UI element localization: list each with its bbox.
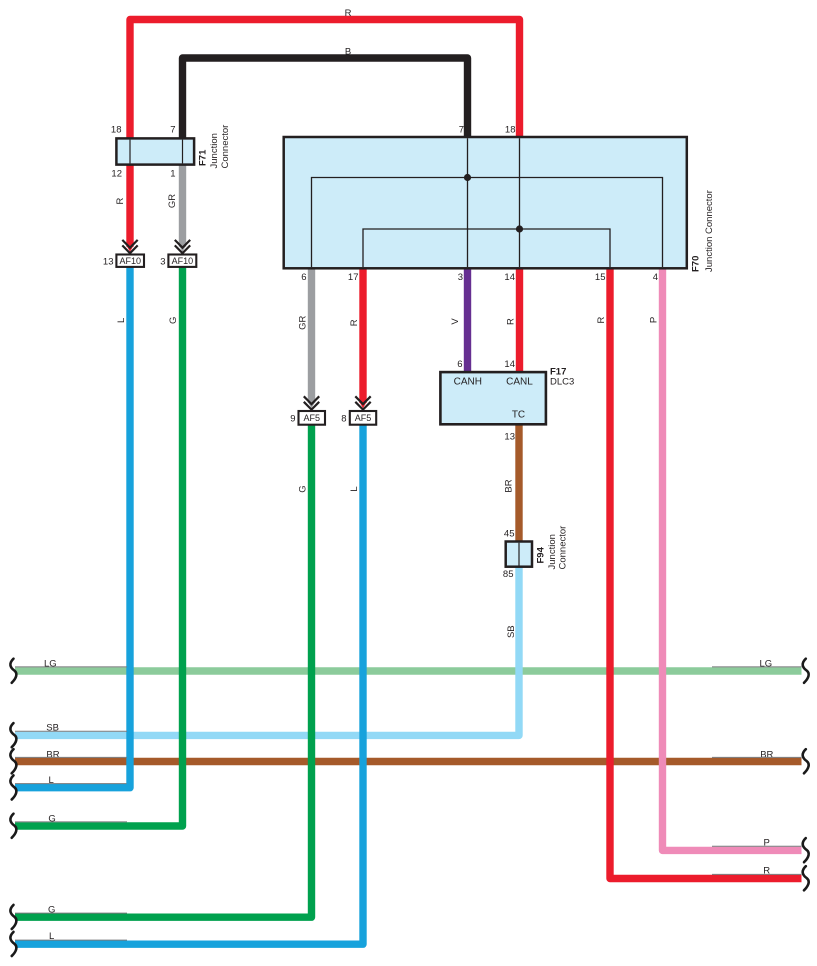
svg-text:Junction: Junction: [547, 534, 558, 569]
designator F71 Junction Connector: [198, 125, 232, 169]
svg-text:GR: GR: [167, 194, 178, 208]
designator F94 Junction Connector: [536, 526, 569, 570]
wire BR horizontal bus: [15, 758, 802, 765]
svg-text:14: 14: [504, 359, 515, 370]
svg-text:F70: F70: [691, 256, 702, 272]
svg-text:1: 1: [170, 169, 175, 180]
connector box AF10 (pin 3): [168, 255, 196, 267]
junction dot F70 pins 7-3/6-4 bus: [464, 174, 471, 181]
underline LG right: [712, 666, 802, 668]
svg-text:L: L: [349, 486, 360, 491]
svg-text:12: 12: [111, 169, 122, 180]
wire L from AF10 pin 13 down and left: [15, 266, 130, 788]
connector box AF5 (pin 8): [350, 411, 376, 425]
wire P from F70 pin 4 down and right: [663, 267, 802, 850]
svg-text:Connector: Connector: [220, 125, 231, 169]
junction connector F70: [284, 137, 687, 268]
connector box AF5 (pin 9): [299, 411, 326, 425]
arrow into AF5 pin 8: [355, 396, 370, 412]
svg-text:GR: GR: [298, 316, 309, 330]
underline BR right: [712, 756, 802, 758]
break symbol L2 left: [10, 932, 16, 956]
wire LG horizontal bus: [15, 667, 802, 674]
svg-text:LG: LG: [759, 658, 772, 669]
svg-text:6: 6: [457, 359, 462, 370]
svg-text:7: 7: [459, 125, 464, 136]
break symbol L left: [10, 775, 16, 799]
svg-text:R: R: [596, 316, 607, 323]
underline G2 left: [15, 912, 127, 914]
wire R from F70 pin 17 to AF5 pin 8: [359, 267, 366, 403]
wire BR from F17 TC pin 13 to F94 pin 45: [515, 424, 522, 544]
arrow into AF5 pin 9: [304, 396, 319, 412]
svg-text:13: 13: [504, 431, 515, 442]
designator F70 Junction Connector: [691, 190, 716, 272]
svg-text:CANL: CANL: [506, 377, 533, 388]
svg-text:AF10: AF10: [172, 256, 194, 266]
svg-text:SB: SB: [46, 723, 59, 734]
wire GR from F71 pin 1 to AF10 pin 3: [179, 163, 186, 247]
connector box AF10 (pin 13): [116, 255, 144, 267]
svg-text:AF5: AF5: [303, 413, 320, 423]
junction dot F70 pins 18-14/17-15 bus: [516, 225, 523, 232]
svg-text:8: 8: [341, 414, 346, 425]
wire GR from F70 pin 6 to AF5 pin 9: [308, 267, 315, 403]
designator F17 DLC3: [550, 367, 574, 388]
wire G from AF10 pin 3 down and left: [15, 266, 183, 827]
underline P right: [712, 845, 802, 847]
wire V from F70 pin 3 to F17 CANH: [464, 267, 471, 373]
svg-text:G: G: [48, 813, 55, 824]
break symbol SB left: [10, 723, 16, 747]
svg-text:LG: LG: [44, 658, 57, 669]
svg-text:BR: BR: [760, 749, 773, 760]
svg-text:P: P: [649, 317, 660, 323]
svg-text:AF5: AF5: [355, 413, 372, 423]
break symbol R right: [803, 866, 809, 890]
svg-text:45: 45: [504, 529, 515, 540]
wire R from F70 pin 15 down and right: [610, 267, 802, 879]
svg-text:6: 6: [301, 272, 306, 283]
svg-text:Junction Connector: Junction Connector: [704, 190, 715, 272]
svg-text:3: 3: [458, 272, 463, 283]
underline BR left: [15, 756, 127, 758]
svg-text:F94: F94: [536, 546, 547, 563]
underline G left: [15, 821, 127, 823]
svg-text:P: P: [764, 838, 770, 849]
svg-text:TC: TC: [512, 410, 525, 421]
wire L from AF5 pin 8 down and left: [15, 424, 363, 945]
break symbol LG left: [10, 659, 16, 683]
svg-text:G: G: [168, 317, 179, 324]
svg-text:15: 15: [595, 272, 606, 283]
break symbol P right: [803, 838, 809, 862]
svg-text:AF10: AF10: [119, 256, 141, 266]
DLC3 connector F17: [440, 372, 546, 424]
arrow into AF10 pin 3: [175, 240, 190, 256]
svg-text:4: 4: [653, 272, 658, 283]
junction connector F71: [116, 138, 194, 164]
wire R main: F71 pin 18 up over to F70 pin 18, through to F17 CANL: [130, 20, 520, 374]
svg-text:R: R: [506, 318, 517, 325]
svg-text:B: B: [345, 47, 351, 58]
underline SB left: [15, 730, 127, 732]
underline R right: [712, 873, 802, 875]
svg-text:85: 85: [503, 569, 514, 580]
break symbol LG right: [803, 659, 809, 683]
break symbol G left: [10, 814, 16, 838]
arrow into AF10 pin 13: [122, 240, 137, 256]
svg-text:V: V: [450, 318, 461, 325]
svg-text:R: R: [345, 8, 352, 19]
svg-text:SB: SB: [506, 625, 517, 638]
svg-text:CANH: CANH: [454, 377, 482, 388]
svg-text:L: L: [116, 318, 127, 323]
underline L2 left: [15, 939, 127, 941]
svg-text:7: 7: [170, 125, 175, 136]
svg-text:3: 3: [160, 256, 165, 267]
svg-text:Junction: Junction: [209, 133, 220, 168]
wire G from AF5 pin 9 down and left: [15, 424, 312, 918]
svg-text:Connector: Connector: [558, 526, 569, 570]
wire B: F71 pin 7 up over to F70 pin 7: [183, 58, 468, 140]
svg-text:R: R: [349, 319, 360, 326]
svg-text:F71: F71: [198, 149, 209, 166]
svg-text:18: 18: [111, 125, 122, 136]
svg-text:G: G: [48, 905, 55, 916]
underline LG left: [15, 666, 127, 668]
underline L left: [15, 783, 127, 785]
svg-text:9: 9: [290, 414, 295, 425]
break symbol BR right: [803, 749, 809, 773]
svg-text:L: L: [49, 775, 54, 786]
svg-text:R: R: [763, 866, 770, 877]
svg-text:14: 14: [504, 272, 515, 283]
svg-text:13: 13: [103, 256, 114, 267]
wire SB from F94 pin 85 down and left: [15, 566, 519, 736]
svg-text:G: G: [298, 485, 309, 492]
break symbol G2 left: [10, 905, 16, 929]
junction connector F94: [506, 542, 532, 567]
svg-text:BR: BR: [504, 479, 515, 492]
svg-text:BR: BR: [46, 749, 59, 760]
svg-text:17: 17: [348, 272, 359, 283]
svg-text:R: R: [115, 197, 126, 204]
svg-text:18: 18: [505, 125, 516, 136]
break symbol BR left: [10, 749, 16, 773]
svg-text:DLC3: DLC3: [550, 376, 574, 387]
